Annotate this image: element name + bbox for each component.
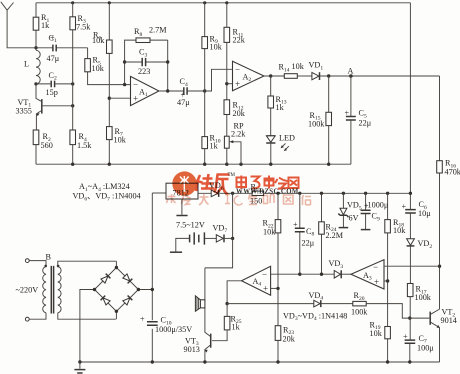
capacitor C9 1000u bbox=[361, 193, 389, 229]
svg-text:10k: 10k bbox=[92, 36, 105, 45]
svg-text:9014: 9014 bbox=[441, 316, 457, 325]
svg-text:560: 560 bbox=[41, 141, 53, 150]
resistor R15 100k bbox=[308, 76, 332, 164]
wire A2 plus input bbox=[227, 83, 233, 85]
capacitor C10 1000u/35V bbox=[140, 315, 192, 334]
node junction R11 top bbox=[225, 1, 228, 4]
resistor R11 22k bbox=[224, 3, 246, 100]
resistor R14 10k bbox=[279, 62, 312, 78]
wire A3 minus input bbox=[384, 265, 440, 267]
inductor L bbox=[24, 48, 40, 84]
resistor R24 2.2M bbox=[319, 193, 344, 274]
wire A4 output bbox=[227, 281, 241, 304]
node junction A4 plus / R22R23 bbox=[276, 287, 279, 290]
node junction rail/C6 line bbox=[409, 192, 412, 195]
svg-text:1000μ: 1000μ bbox=[368, 201, 389, 210]
diode VD2 bbox=[407, 239, 433, 284]
node junction L/C2/VT1 collector bbox=[34, 82, 37, 85]
resistor R20 100k bbox=[351, 291, 410, 318]
svg-text:22μ: 22μ bbox=[359, 119, 372, 128]
node junction A1 plus input bbox=[108, 97, 111, 100]
transistor VT2 9014 bbox=[410, 308, 457, 363]
node junction A3 minus / R16 / VT2 collector bbox=[438, 265, 441, 268]
capacitor C5 22u bbox=[345, 76, 372, 164]
node junction VD5 top bbox=[342, 192, 345, 195]
wire A2 output bbox=[264, 75, 284, 77]
resistor R17 100k bbox=[407, 284, 431, 340]
capacitor C8 22u bbox=[293, 193, 315, 274]
wire feedback right leg bbox=[167, 40, 169, 91]
resistor R5 10k bbox=[85, 48, 131, 85]
svg-text:~220V: ~220V bbox=[16, 286, 39, 295]
wire A3 plus input bbox=[384, 280, 388, 282]
node junction R3 top bbox=[71, 1, 74, 4]
node junction A4 out / R25 / audio line bbox=[225, 302, 228, 305]
svg-text:+: + bbox=[345, 109, 350, 118]
resistor R25 1k bbox=[212, 304, 242, 341]
svg-text:1k: 1k bbox=[276, 103, 285, 112]
node junction bridge plus bbox=[151, 288, 154, 291]
node junction C3 right bbox=[166, 60, 169, 63]
resistor R9 10k bbox=[202, 3, 223, 137]
node junction VD7 line top bbox=[231, 192, 234, 195]
diode VD4 bbox=[309, 291, 353, 307]
svg-text:10k: 10k bbox=[92, 64, 105, 73]
svg-text:10k: 10k bbox=[210, 43, 223, 52]
node junction C7 bottom bbox=[408, 360, 411, 363]
resistor R6 10k bbox=[92, 3, 112, 127]
ground rail mid y164 bbox=[36, 163, 351, 165]
svg-text:1k: 1k bbox=[210, 142, 219, 151]
node junction VD1/R15 bbox=[327, 74, 330, 77]
resistor R10 1k bbox=[202, 134, 221, 165]
node junction R24 top bbox=[320, 192, 323, 195]
resistor R18 10k bbox=[385, 193, 406, 326]
node junction A1 out/feedback bbox=[166, 89, 169, 92]
svg-text:22k: 22k bbox=[233, 36, 246, 45]
watermark slogan row bbox=[167, 194, 312, 205]
svg-text:47μ: 47μ bbox=[177, 98, 190, 107]
svg-text:10k: 10k bbox=[114, 136, 127, 145]
wire power rail bbox=[198, 192, 410, 194]
svg-text:10k: 10k bbox=[370, 329, 383, 338]
bridge diode top-right bbox=[123, 274, 133, 284]
node junction C2/R3R4 bbox=[71, 82, 74, 85]
svg-text:223: 223 bbox=[138, 67, 150, 76]
svg-text:20k: 20k bbox=[233, 109, 246, 118]
wire 7812 input bbox=[152, 192, 166, 194]
wire audio line bbox=[227, 303, 314, 305]
node junction C8 top bbox=[298, 192, 301, 195]
node junction VT1 base / R3R4 bbox=[71, 104, 74, 107]
svg-text:1k: 1k bbox=[232, 323, 241, 332]
node junction R4 bottom bbox=[71, 163, 74, 166]
svg-text:L: L bbox=[24, 60, 29, 69]
svg-text:3355: 3355 bbox=[16, 107, 32, 116]
svg-text:7.5~12V: 7.5~12V bbox=[176, 221, 205, 230]
svg-text:100μ: 100μ bbox=[417, 343, 434, 352]
svg-text:47μ: 47μ bbox=[47, 54, 60, 63]
node junction C9 top bbox=[364, 192, 367, 195]
svg-text:470k: 470k bbox=[445, 168, 460, 177]
wire top supply rail bbox=[36, 2, 410, 4]
wire feedback left leg bbox=[125, 40, 136, 85]
resistor R1 bbox=[33, 3, 50, 48]
svg-text:LED: LED bbox=[279, 133, 295, 142]
node junction VT3 emitter bbox=[203, 360, 206, 363]
watermark site name chars bbox=[237, 176, 299, 190]
svg-text:7.5k: 7.5k bbox=[76, 22, 91, 31]
bottom ground rail bbox=[80, 361, 440, 363]
potentiometer RP 2.2k bbox=[224, 122, 246, 165]
diode VD7 bbox=[213, 223, 233, 242]
resistor R4 1.5k bbox=[70, 130, 92, 164]
resistor R19 10k bbox=[370, 320, 391, 362]
resistor R13 1k bbox=[268, 76, 287, 136]
capacitor C2 15p bbox=[36, 71, 73, 97]
op-amp A4 bbox=[242, 266, 271, 295]
svg-text:+: + bbox=[293, 220, 298, 229]
op-amp A2 bbox=[233, 61, 265, 90]
resistor R21 150 bbox=[250, 183, 264, 206]
node junction VD7 cathode bbox=[231, 237, 234, 240]
regulator 7812 bbox=[166, 183, 198, 215]
resistor R16 470k bbox=[437, 76, 460, 309]
bridge diode bottom-left bbox=[101, 296, 111, 305]
diode VD1 bbox=[309, 61, 440, 81]
diode VD6 bbox=[209, 181, 224, 197]
node junction R9 top bbox=[203, 1, 206, 4]
svg-text:10μ: 10μ bbox=[418, 209, 431, 218]
svg-text:+: + bbox=[263, 283, 268, 293]
svg-text:2.7M: 2.7M bbox=[149, 26, 167, 35]
op-amp A1 bbox=[131, 76, 159, 105]
svg-text:1000μ/35V: 1000μ/35V bbox=[155, 325, 192, 334]
resistor R3 7.5k bbox=[70, 3, 91, 130]
svg-text:10k: 10k bbox=[263, 228, 276, 237]
resistor R8 2.7M bbox=[134, 26, 168, 43]
svg-text:−: − bbox=[373, 262, 378, 272]
node junction RP wiper bottom bbox=[239, 163, 242, 166]
node junction R10 bottom bbox=[203, 163, 206, 166]
zener VD5 6V bbox=[338, 193, 361, 227]
node junction R15 bottom bbox=[327, 163, 330, 166]
node junction R6 top bbox=[108, 1, 111, 4]
node junction R19 bottom bbox=[386, 360, 389, 363]
op-amp A3 bbox=[351, 260, 384, 289]
svg-text:9013: 9013 bbox=[184, 345, 200, 354]
svg-text:1k: 1k bbox=[41, 21, 50, 30]
node junction C3 left bbox=[123, 60, 126, 63]
node junction R23 bottom bbox=[276, 360, 279, 363]
svg-text:10k: 10k bbox=[393, 226, 406, 235]
ground symbol bbox=[74, 362, 85, 373]
node junction C10 bottom bbox=[151, 360, 154, 363]
resistor R22 10k bbox=[263, 193, 281, 325]
bridge rectifier bbox=[80, 261, 152, 362]
svg-text:10k: 10k bbox=[292, 62, 305, 71]
node junction R7 bottom bbox=[108, 163, 111, 166]
svg-text:22μ: 22μ bbox=[302, 238, 315, 247]
node junction rail left/ground bbox=[78, 360, 81, 363]
bridge diode bottom-right bbox=[123, 296, 133, 306]
svg-text:+: + bbox=[235, 79, 240, 89]
svg-text:100k: 100k bbox=[351, 307, 368, 316]
svg-text:−: − bbox=[262, 269, 267, 279]
node junction A3 plus / R18R19 bbox=[386, 279, 389, 282]
wire jog to A2 minus bbox=[205, 69, 233, 91]
svg-text:+: + bbox=[140, 315, 145, 324]
wire A1 plus input bbox=[109, 97, 130, 99]
speaker bbox=[195, 268, 205, 311]
svg-text:+: + bbox=[133, 94, 138, 104]
node junction LED bottom bbox=[269, 163, 272, 166]
antenna bbox=[1, 2, 36, 48]
wire A4 plus input bbox=[271, 287, 278, 289]
wire node A to R16 bbox=[409, 3, 411, 209]
svg-text:TM: TM bbox=[228, 173, 236, 178]
svg-text:15p: 15p bbox=[46, 88, 58, 97]
LED bbox=[266, 133, 295, 164]
svg-text:+: + bbox=[374, 277, 379, 287]
node junction VT2 base bbox=[408, 316, 411, 319]
resistor R23 20k bbox=[275, 325, 295, 362]
svg-text:+: + bbox=[403, 332, 408, 341]
wire A1 output bbox=[159, 90, 183, 92]
node A bbox=[348, 67, 354, 78]
svg-text:1.5k: 1.5k bbox=[77, 141, 92, 150]
resistor R12 20k bbox=[224, 100, 246, 136]
capacitor C6 10u bbox=[402, 200, 432, 239]
svg-text:+: + bbox=[402, 202, 407, 211]
transistor VT3 9013 bbox=[184, 308, 211, 362]
node junction C8/A4 minus bbox=[298, 273, 301, 276]
resistor R2 560 bbox=[33, 130, 53, 164]
capacitor C3 223 bbox=[125, 48, 168, 77]
wire speaker supply from VD7 node bbox=[205, 193, 233, 268]
svg-text:100k: 100k bbox=[308, 119, 325, 128]
watermark brand chars bbox=[196, 174, 230, 195]
svg-text:−: − bbox=[235, 64, 240, 74]
svg-text:2.2k: 2.2k bbox=[231, 129, 246, 138]
svg-text:6V: 6V bbox=[349, 214, 359, 223]
node junction A2 out/R13 bbox=[269, 74, 272, 77]
node junction R24/A4 minus bbox=[320, 273, 323, 276]
svg-text:100k: 100k bbox=[415, 293, 432, 302]
transformer B bbox=[16, 252, 117, 321]
resistor R7 10k bbox=[107, 127, 127, 165]
svg-text:B: B bbox=[46, 252, 52, 261]
battery 7.5-12V bbox=[170, 221, 216, 253]
node junction R18 top bbox=[386, 192, 389, 195]
diode VD3 bbox=[329, 259, 352, 278]
node junction feedback/A1 minus bbox=[123, 83, 126, 86]
node junction C4/R9R10 bbox=[203, 89, 206, 92]
wire A4 minus input bbox=[271, 273, 335, 275]
node junction R22 top bbox=[276, 192, 279, 195]
capacitor C4 47u bbox=[177, 77, 205, 107]
svg-text:2.2M: 2.2M bbox=[326, 231, 344, 240]
capacitor C7 100u bbox=[403, 332, 434, 362]
node junction antenna/R1/L bbox=[34, 46, 37, 49]
node junction R12 bottom rail bbox=[225, 163, 228, 166]
bridge diode top-left bbox=[101, 274, 111, 284]
svg-text:20k: 20k bbox=[283, 334, 296, 343]
svg-text:A: A bbox=[348, 67, 354, 76]
node junction A2 plus bbox=[225, 82, 228, 85]
capacitor C1 47u bbox=[36, 33, 88, 63]
wire bridge plus to 7812 and C10 bbox=[151, 193, 153, 362]
transistor VT1 3355 bbox=[16, 84, 73, 130]
svg-text:−: − bbox=[133, 80, 138, 90]
